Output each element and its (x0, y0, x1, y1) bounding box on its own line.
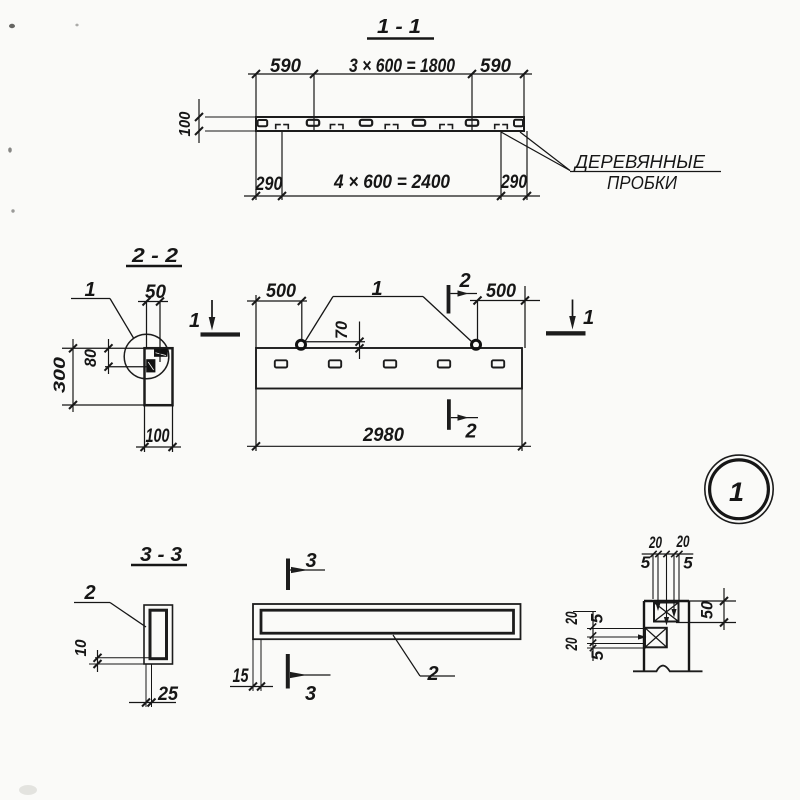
svg-text:15: 15 (233, 666, 249, 687)
svg-text:80: 80 (81, 348, 100, 367)
svg-text:290: 290 (255, 174, 283, 195)
svg-text:100: 100 (177, 111, 194, 136)
svg-text:5: 5 (588, 650, 607, 660)
svg-text:2: 2 (458, 270, 470, 292)
svg-text:2: 2 (426, 663, 438, 685)
svg-text:4 × 600 = 2400: 4 × 600 = 2400 (333, 172, 450, 193)
svg-text:5: 5 (641, 553, 651, 572)
svg-text:100: 100 (146, 426, 170, 447)
svg-text:1: 1 (583, 307, 594, 329)
svg-text:1: 1 (189, 310, 200, 332)
svg-text:1: 1 (84, 279, 95, 301)
svg-text:10: 10 (73, 639, 90, 656)
svg-text:290: 290 (500, 172, 527, 193)
svg-text:500: 500 (486, 281, 516, 302)
svg-text:2: 2 (464, 421, 476, 443)
svg-text:590: 590 (480, 56, 511, 77)
svg-text:5: 5 (683, 554, 693, 573)
svg-text:1: 1 (729, 477, 744, 507)
svg-text:300: 300 (50, 356, 69, 393)
svg-text:1: 1 (371, 278, 382, 300)
svg-text:ДЕРЕВЯННЫЕ: ДЕРЕВЯННЫЕ (573, 152, 706, 172)
svg-text:5: 5 (588, 613, 607, 623)
svg-text:500: 500 (266, 281, 296, 302)
svg-text:3 - 3: 3 - 3 (140, 544, 182, 566)
svg-text:590: 590 (270, 56, 301, 77)
svg-text:50: 50 (145, 282, 166, 303)
svg-text:20: 20 (562, 611, 581, 625)
svg-text:ПРОБКИ: ПРОБКИ (607, 173, 677, 193)
svg-text:25: 25 (157, 684, 178, 705)
svg-text:20: 20 (648, 533, 662, 552)
svg-text:3: 3 (305, 550, 316, 572)
svg-text:2980: 2980 (362, 425, 404, 446)
svg-text:2: 2 (83, 582, 95, 604)
svg-text:3 × 600 = 1800: 3 × 600 = 1800 (349, 56, 455, 77)
svg-text:1 - 1: 1 - 1 (377, 16, 421, 38)
svg-text:2 - 2: 2 - 2 (131, 245, 178, 267)
svg-text:70: 70 (332, 320, 351, 339)
svg-text:20: 20 (676, 532, 690, 551)
svg-text:50: 50 (698, 600, 717, 619)
svg-text:3: 3 (305, 683, 316, 705)
svg-text:20: 20 (562, 637, 581, 651)
